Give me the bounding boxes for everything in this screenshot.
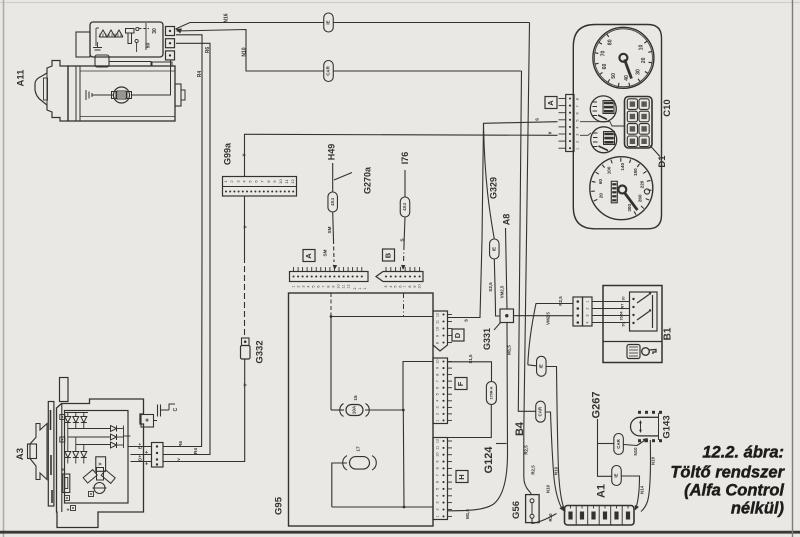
warning light panel D1 (625, 97, 653, 149)
svg-text:3: 3 (576, 134, 580, 136)
svg-text:5: 5 (436, 488, 440, 490)
svg-text:S2,5: S2,5 (488, 282, 493, 292)
svg-text:1: 1 (292, 285, 296, 287)
svg-text:G124: G124 (483, 446, 495, 474)
svg-text:70: 70 (601, 51, 607, 57)
svg-text:s: s (463, 319, 469, 322)
svg-text:2: 2 (585, 307, 589, 309)
connector G331 (500, 309, 514, 323)
svg-text:(Alfa Control: (Alfa Control (684, 482, 784, 500)
svg-text:B1: B1 (663, 327, 674, 340)
wire S2,5 with connectors G329/A8 (484, 123, 495, 239)
svg-text:60: 60 (598, 179, 603, 185)
svg-text:5: 5 (436, 393, 440, 395)
svg-text:IE: IE (614, 473, 619, 477)
G95 connector A (303, 250, 315, 262)
svg-text:1: 1 (436, 515, 440, 517)
svg-text:INT: INT (620, 303, 624, 310)
svg-text:G56: G56 (511, 501, 522, 519)
svg-text:C: C (173, 407, 179, 411)
svg-text:G270a: G270a (362, 166, 372, 194)
svg-text:2: 2 (576, 141, 580, 143)
svg-text:+: + (145, 417, 149, 424)
wire label IE pill top (324, 13, 334, 32)
wire label 170R-A pill (486, 382, 496, 405)
svg-text:4: 4 (436, 400, 440, 402)
svg-text:1: 1 (576, 148, 580, 150)
svg-text:180: 180 (633, 168, 638, 176)
fuel gauge (590, 96, 616, 122)
svg-text:10: 10 (436, 327, 440, 331)
svg-text:N10: N10 (546, 484, 551, 493)
connector G56 (526, 495, 540, 523)
svg-text:8: 8 (408, 285, 412, 287)
svg-text:IE: IE (538, 364, 543, 368)
svg-text:17: 17 (355, 446, 361, 452)
svg-text:2: 2 (436, 508, 440, 510)
svg-text:N16: N16 (223, 13, 229, 22)
svg-text:R6: R6 (178, 441, 183, 447)
svg-text:10A: 10A (352, 405, 357, 414)
svg-text:9: 9 (436, 335, 440, 337)
svg-text:+: + (62, 467, 65, 473)
svg-text:11: 11 (436, 320, 440, 324)
wire N10 CAR to G143 (624, 445, 638, 446)
svg-text:4: 4 (389, 285, 393, 287)
svg-text:8: 8 (327, 285, 331, 287)
svg-text:+: + (145, 461, 148, 467)
svg-text:6: 6 (576, 112, 580, 114)
svg-text:10: 10 (337, 284, 341, 288)
wire N16 riser down to G56 (524, 23, 532, 495)
svg-text:30: 30 (621, 297, 625, 301)
svg-text:V: V (98, 462, 103, 465)
svg-text:G267: G267 (590, 392, 602, 419)
svg-text:2: 2 (353, 287, 357, 289)
svg-text:I76: I76 (400, 152, 410, 165)
svg-text:B: B (383, 252, 392, 258)
svg-text:A11: A11 (16, 69, 27, 87)
wire label IE pill B4 (537, 356, 547, 376)
svg-text:3: 3 (585, 314, 589, 316)
svg-text:D+: D+ (137, 455, 143, 461)
svg-text:7: 7 (436, 380, 440, 382)
wire v vertical (alternator sense) (245, 134, 558, 176)
svg-text:4: 4 (585, 321, 589, 323)
wire label IE pill mid (490, 239, 500, 259)
fuse 17 (350, 457, 370, 470)
svg-text:220: 220 (640, 180, 645, 188)
svg-text:3: 3 (436, 406, 440, 408)
wire s from G95-D to cluster (448, 122, 558, 318)
svg-text:12: 12 (436, 313, 440, 317)
svg-text:v: v (241, 153, 247, 156)
svg-text:4X4: 4X4 (402, 203, 407, 211)
svg-text:6: 6 (317, 285, 321, 287)
svg-text:CAR: CAR (616, 438, 621, 448)
svg-text:N16: N16 (554, 466, 559, 475)
svg-text:50: 50 (145, 43, 151, 49)
temperature gauge (591, 127, 617, 153)
svg-text:100: 100 (607, 166, 612, 174)
svg-text:v: v (176, 458, 181, 461)
svg-text:11: 11 (342, 285, 346, 289)
svg-text:6: 6 (436, 387, 440, 389)
wire R2,5 B1 to riser (528, 304, 573, 365)
wire VM2,5 G331 to B1 (514, 315, 574, 317)
svg-text:A1: A1 (595, 484, 607, 498)
svg-text:R10: R10 (548, 513, 553, 522)
svg-text:R4: R4 (193, 448, 198, 454)
G95 interior wires (330, 293, 332, 316)
svg-text:1: 1 (358, 287, 362, 289)
svg-text:8: 8 (436, 467, 440, 469)
svg-text:12: 12 (347, 284, 351, 288)
svg-text:10: 10 (639, 45, 645, 51)
G95 connector B (383, 249, 395, 261)
svg-text:N14: N14 (640, 485, 645, 494)
svg-text:D: D (453, 332, 462, 338)
svg-text:8: 8 (436, 374, 440, 376)
wire R6 riser (164, 35, 203, 447)
svg-text:20: 20 (641, 57, 647, 63)
cluster connector pins (545, 97, 557, 109)
svg-text:50: 50 (621, 323, 625, 327)
earth point G143 (631, 417, 650, 436)
svg-text:8: 8 (576, 98, 580, 100)
svg-text:7: 7 (576, 105, 580, 107)
svg-text:5: 5 (312, 285, 316, 287)
svg-text:300: 300 (627, 204, 632, 212)
svg-text:2: 2 (297, 285, 301, 287)
svg-text:1: 1 (363, 287, 367, 289)
G95 connector H (456, 471, 468, 483)
speedometer (590, 157, 653, 220)
svg-text:VM2,5: VM2,5 (546, 312, 551, 325)
wire R4 riser (164, 43, 211, 454)
svg-text:5: 5 (394, 285, 398, 287)
wire S1,5 / 170R-A loop (448, 362, 492, 382)
svg-text:F: F (456, 381, 465, 386)
svg-text:v: v (242, 225, 248, 228)
svg-text:60: 60 (602, 64, 608, 70)
svg-text:30: 30 (152, 28, 158, 34)
svg-text:12: 12 (290, 179, 295, 184)
wire N10 (starter to CAR riser) (177, 30, 522, 72)
svg-text:A: A (546, 100, 555, 106)
svg-text:G143: G143 (662, 415, 673, 438)
connector G332 (242, 338, 250, 346)
svg-text:G329: G329 (488, 177, 498, 199)
svg-text:A: A (304, 253, 313, 259)
svg-text:SM: SM (323, 249, 328, 256)
svg-text:3: 3 (436, 502, 440, 504)
fuse 15 (10A) (346, 405, 363, 416)
svg-text:170R-A: 170R-A (489, 386, 493, 399)
svg-text:IE: IE (326, 20, 331, 24)
svg-text:10: 10 (418, 284, 422, 288)
svg-text:11: 11 (436, 446, 440, 450)
svg-text:9: 9 (332, 285, 336, 287)
svg-text:R2,5: R2,5 (531, 465, 536, 475)
G95 connector F (455, 378, 467, 390)
svg-text:10: 10 (278, 179, 283, 184)
svg-text:260: 260 (638, 194, 643, 202)
svg-text:9: 9 (436, 367, 440, 369)
wire label 4X4 pill H49 (328, 192, 338, 212)
svg-text:3: 3 (302, 285, 306, 287)
svg-text:140: 140 (620, 163, 625, 171)
svg-text:2: 2 (436, 413, 440, 415)
border frame (0, 2, 800, 4)
svg-text:9: 9 (436, 460, 440, 462)
svg-text:+: + (145, 450, 148, 456)
svg-text:G331: G331 (482, 328, 492, 350)
svg-text:4: 4 (307, 285, 311, 287)
svg-text:7: 7 (403, 285, 407, 287)
svg-text:8: 8 (436, 342, 440, 344)
svg-text:30: 30 (635, 69, 641, 75)
wire N14 IE to A1 (622, 476, 640, 508)
svg-text:7: 7 (322, 285, 326, 287)
G95 connector D (452, 329, 464, 341)
svg-text:7: 7 (436, 474, 440, 476)
svg-text:10: 10 (436, 359, 440, 363)
svg-text:D1: D1 (657, 155, 668, 168)
svg-text:R4: R4 (197, 71, 203, 78)
svg-text:N10: N10 (633, 447, 638, 456)
svg-text:v: v (242, 383, 248, 386)
svg-text:B+: B+ (137, 443, 143, 449)
svg-text:M1,5: M1,5 (507, 345, 512, 355)
wire label 4X4 pill I76 (400, 197, 410, 217)
svg-text:9: 9 (413, 285, 417, 287)
svg-text:12.2. ábra:: 12.2. ábra: (702, 444, 784, 462)
svg-text:6: 6 (436, 481, 440, 483)
svg-text:S1,5: S1,5 (468, 354, 473, 364)
caption (670, 444, 785, 518)
svg-text:4: 4 (576, 127, 580, 129)
svg-text:N10: N10 (651, 456, 656, 465)
svg-text:nélkül): nélkül) (731, 500, 785, 518)
svg-text:v: v (547, 131, 553, 134)
svg-text:Töltő rendszer: Töltő rendszer (670, 464, 785, 482)
wire R2,5-IE to A1 (528, 365, 536, 366)
svg-text:50: 50 (611, 73, 617, 79)
svg-text:1: 1 (585, 300, 589, 302)
svg-text:20: 20 (598, 193, 603, 199)
svg-text:A3: A3 (15, 448, 26, 460)
svg-text:3: 3 (384, 285, 388, 287)
svg-text:CAR: CAR (326, 65, 331, 75)
wire label CAR pill B4 (536, 401, 546, 422)
svg-text:G95: G95 (274, 496, 285, 515)
svg-text:s: s (534, 118, 540, 121)
svg-text:15: 15 (353, 395, 359, 401)
svg-text:R2,5: R2,5 (558, 296, 563, 306)
svg-text:12: 12 (436, 439, 440, 443)
wire label IE pill G267 (612, 466, 622, 486)
wire N16 (starter 30 to right riser) (176, 29, 183, 34)
tachometer (593, 27, 654, 88)
svg-text:N10: N10 (241, 47, 247, 56)
svg-text:G332: G332 (255, 340, 266, 363)
wire N10 G143 to A1 (641, 440, 651, 512)
wire VM2,5 stub (A8) (506, 228, 508, 309)
wire M1,5 G331 to G95-H1 (448, 323, 508, 511)
svg-text:R2,5: R2,5 (524, 445, 529, 455)
svg-text:1: 1 (436, 419, 440, 421)
svg-text:80: 80 (607, 39, 613, 45)
svg-text:5: 5 (576, 119, 580, 121)
svg-text:4X4: 4X4 (330, 198, 335, 206)
svg-text:4: 4 (436, 495, 440, 497)
svg-text:+: + (67, 507, 70, 513)
svg-text:10: 10 (436, 453, 440, 457)
svg-text:6: 6 (398, 285, 402, 287)
svg-text:A8: A8 (501, 214, 511, 226)
svg-text:IE: IE (491, 247, 496, 251)
svg-text:H: H (457, 474, 466, 479)
svg-text:M1,5: M1,5 (465, 509, 470, 519)
svg-text:VM2,5: VM2,5 (500, 285, 505, 298)
wire label CAR pill G267 (614, 434, 624, 455)
svg-text:H49: H49 (326, 144, 336, 161)
svg-text:G99a: G99a (222, 142, 232, 165)
wire N10 riser to CAR pill (518, 71, 535, 411)
svg-text:C10: C10 (662, 99, 673, 116)
svg-text:CAR: CAR (538, 406, 543, 416)
svg-text:SM: SM (327, 226, 332, 233)
svg-text:15/54: 15/54 (619, 312, 623, 321)
wire label CAR pill top (324, 61, 334, 82)
